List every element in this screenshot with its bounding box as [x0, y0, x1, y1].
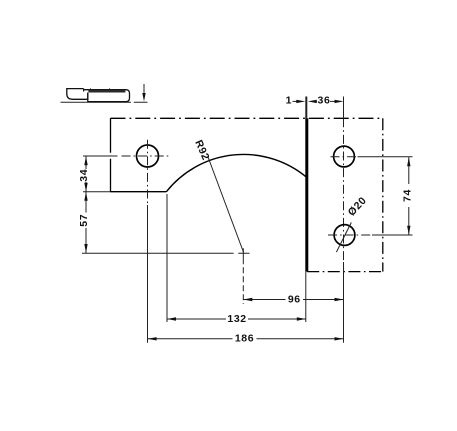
dimension 132: [167, 318, 306, 320]
side view baseline: [61, 101, 148, 103]
svg-text:1: 1: [286, 94, 292, 106]
extension line above thick edge: [305, 97, 307, 119]
plate left edge: [110, 118, 112, 191]
extension line below thick edge: [305, 272, 307, 322]
side view hook (left lip profile): [67, 89, 88, 100]
svg-text:57: 57: [78, 214, 90, 227]
left hole vertical centerline: [147, 140, 149, 205]
dimension 57: [85, 192, 87, 253]
phantom part right edge: [382, 118, 384, 271]
left hole: [137, 145, 159, 167]
svg-text:186: 186: [235, 333, 254, 345]
phantom part bottom edge: [307, 271, 383, 273]
svg-text:74: 74: [401, 189, 413, 202]
dimension 36: [308, 100, 317, 103]
plate bottom edge: [111, 191, 167, 193]
side view thickness arrow: [143, 84, 145, 94]
arc center vertical line (96 extension): [242, 258, 244, 304]
thick right edge of plate: [305, 118, 308, 271]
arc center cross: [238, 248, 249, 258]
bottom hole horizontal centerline: [328, 234, 372, 236]
34/57 extension at bottom edge: [83, 191, 111, 193]
svg-text:132: 132: [227, 313, 246, 325]
arc cutout R92: [166, 154, 306, 191]
left hole horizontal centerline + 34 extension: [83, 155, 118, 157]
svg-text:34: 34: [78, 169, 90, 182]
side view top ticks: [91, 88, 110, 89]
dimension 186: [148, 338, 344, 340]
right top hole horizontal centerline: [331, 156, 357, 158]
right holes vertical centerline: [343, 97, 345, 119]
dimension 96: [243, 299, 343, 301]
dimension 74: [408, 157, 410, 235]
Ø20 leader line: [336, 223, 351, 253]
132 left extension line: [166, 194, 168, 322]
svg-text:96: 96: [288, 293, 301, 305]
plate top edge (chain line): [111, 117, 384, 119]
side view top band: [88, 90, 125, 93]
arc center horizontal line (57 extension): [82, 252, 234, 254]
right top hole: [334, 146, 355, 167]
bottom hole Ø20: [334, 225, 355, 246]
side view body outline: [84, 90, 130, 102]
side view hook tick: [83, 89, 85, 92]
R92 leader line: [208, 157, 244, 253]
dimension 34: [85, 156, 87, 191]
svg-text:36: 36: [318, 95, 331, 107]
74 bottom extension line: [372, 234, 413, 236]
74 top extension line: [358, 156, 413, 158]
